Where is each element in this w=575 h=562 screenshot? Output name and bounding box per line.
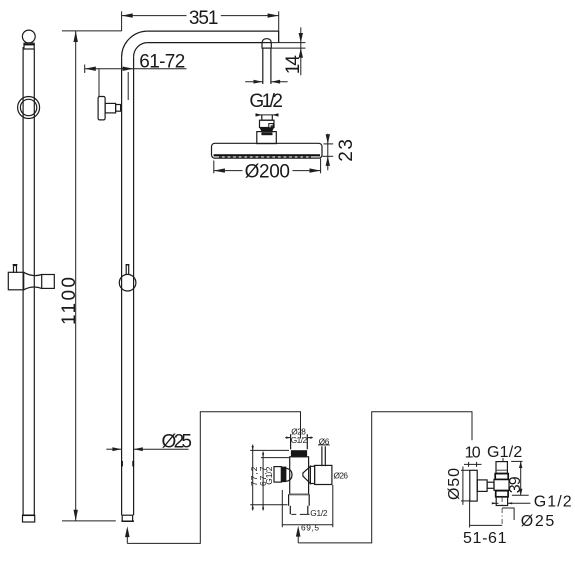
svg-text:1100: 1100 xyxy=(59,277,80,325)
diverter dim 69,5 ext right xyxy=(332,485,334,527)
curve inner artifact line xyxy=(127,72,129,100)
head connector body xyxy=(260,120,275,127)
wall elbow O50 dim line xyxy=(462,467,464,505)
wall elbow dim 10 xyxy=(464,463,482,465)
svg-text:G1/2: G1/2 xyxy=(487,444,522,461)
dim 23 line xyxy=(327,134,329,171)
dim 351 line right part xyxy=(221,15,279,17)
svg-text:Ø26: Ø26 xyxy=(334,471,349,481)
head connector base xyxy=(257,132,277,144)
wall elbow collar A xyxy=(495,474,508,480)
column curve inner xyxy=(134,43,148,57)
wall elbow right G1/2 leader xyxy=(508,502,531,504)
shower head face heavy line xyxy=(214,154,320,156)
wall elbow flange xyxy=(470,470,477,501)
wall elbow thread joint line xyxy=(496,469,507,471)
dim 14 line xyxy=(300,27,302,75)
G1/2 callout arm line left xyxy=(245,81,262,83)
wall elbow stem xyxy=(477,480,487,492)
diverter dim bottom ext xyxy=(250,504,287,506)
column curve outer xyxy=(122,31,148,57)
shower arm end edge xyxy=(278,31,280,42)
head connector dark band xyxy=(260,128,275,132)
wall elbow dim 51-61 line xyxy=(470,524,503,526)
svg-text:Ø50: Ø50 xyxy=(446,468,463,500)
svg-text:G1/2: G1/2 xyxy=(264,466,274,484)
diverter O28 arrows xyxy=(285,437,290,439)
dim 351 arrow right xyxy=(268,13,279,17)
dim O200 arrow left xyxy=(214,168,225,172)
dim 61-72 left tick xyxy=(84,65,86,74)
dim 14 ext top xyxy=(272,42,306,44)
dim 61-72 arrow right xyxy=(123,67,134,71)
slide bar ball top xyxy=(22,30,35,43)
dim 1100 line xyxy=(75,31,77,521)
slide bar mounting ring xyxy=(18,97,40,119)
svg-text:23: 23 xyxy=(336,139,357,162)
diverter dim 69,5 line xyxy=(282,524,333,526)
diverter: inlet tube walls xyxy=(290,434,292,449)
dim O200 line right xyxy=(293,170,321,172)
diverter right port cone xyxy=(303,466,311,483)
slide bar xyxy=(22,47,24,515)
dim 14 arrow up xyxy=(299,48,303,58)
wall elbow collar xyxy=(487,482,494,488)
dim 61-72 line xyxy=(85,68,187,70)
G1/2 callout arrow right xyxy=(271,80,280,84)
svg-text:G1/2: G1/2 xyxy=(534,493,572,510)
arm end collar xyxy=(262,43,271,49)
diverter dim 67,7 ext top xyxy=(261,457,289,459)
svg-text:351: 351 xyxy=(189,8,219,29)
diverter left port thread black xyxy=(281,467,286,483)
svg-text:51-61: 51-61 xyxy=(463,530,507,547)
wall elbow dim 51-61 ext xyxy=(469,499,471,527)
arm end dome xyxy=(262,39,271,43)
diverter lower outlet lower xyxy=(290,506,308,515)
hand shower holder waist xyxy=(24,272,42,275)
dim 351 arrow left xyxy=(122,13,133,17)
dim 23 ext bottom xyxy=(323,155,334,157)
diverter dim 69,5 ext left xyxy=(281,490,283,527)
diverter right port body xyxy=(315,465,332,484)
head connector socket xyxy=(262,115,273,120)
dim 61-72 arrow left xyxy=(85,67,96,71)
routing right: arrow under diverter xyxy=(296,526,301,537)
head connector base thread band xyxy=(261,132,272,135)
column holder knob circle xyxy=(119,274,136,291)
column joint ticks xyxy=(121,461,123,467)
diverter right port band xyxy=(310,466,314,483)
hand shower holder right block xyxy=(42,275,55,289)
arm drop pipe xyxy=(262,48,264,84)
wall elbow body xyxy=(494,479,509,490)
dim 23 arrow up xyxy=(326,156,330,166)
svg-text:G1/2: G1/2 xyxy=(249,91,283,112)
wall bracket stem xyxy=(105,103,116,113)
diverter body bottom joint xyxy=(289,494,309,496)
dim O200 arrow right xyxy=(310,168,321,172)
dim O200 ext right xyxy=(320,158,322,173)
dim 351 ext left xyxy=(121,11,123,31)
hand shower holder left block xyxy=(8,272,23,290)
dim 1100 arrow down xyxy=(74,510,78,521)
dim O200 line left xyxy=(214,170,243,172)
svg-text:Ø6: Ø6 xyxy=(319,436,330,446)
diverter dim 77,2 line xyxy=(252,445,254,511)
svg-text:61-72: 61-72 xyxy=(139,51,185,72)
svg-text:Ø25: Ø25 xyxy=(521,513,555,530)
diverter O6 pipe xyxy=(321,446,323,466)
svg-text:G1/2: G1/2 xyxy=(291,435,308,445)
svg-text:G1/2: G1/2 xyxy=(310,508,328,518)
wall elbow dim 39 xyxy=(511,460,522,462)
svg-text:Ø200: Ø200 xyxy=(245,162,290,183)
G1/2 callout line right xyxy=(271,81,288,83)
wall elbow top thread stub xyxy=(496,462,507,474)
dim 23 ext top xyxy=(324,143,334,145)
dim 23 arrow down xyxy=(326,134,330,144)
shower head outline xyxy=(212,143,323,158)
diverter lower outlet upper xyxy=(289,494,310,506)
column holder pin xyxy=(126,265,129,275)
wall elbow G1/2 top leader xyxy=(502,458,504,461)
wall elbow O25 leader xyxy=(502,508,514,520)
dim 1100 extension top xyxy=(62,30,122,32)
wall elbow centerline xyxy=(501,497,503,525)
svg-text:10: 10 xyxy=(465,444,481,461)
dim 14 arrow down xyxy=(299,33,303,43)
column bottom cap xyxy=(122,515,132,521)
diverter left port barrel xyxy=(274,467,281,483)
svg-text:69,5: 69,5 xyxy=(301,523,319,533)
slide bar collar under ball xyxy=(24,43,34,49)
svg-text:14: 14 xyxy=(283,55,304,75)
dim O25 column arrows xyxy=(106,448,121,450)
shower head nozzle dashes xyxy=(219,156,311,158)
head connector set screw xyxy=(269,124,273,128)
slide bar bottom cap xyxy=(23,515,35,522)
diverter left port dome xyxy=(286,468,292,481)
G1/2 callout arrow left xyxy=(254,80,263,84)
leader from dim 61-72 to wall bracket xyxy=(98,69,100,97)
column riser right edge xyxy=(133,57,135,515)
dim 351 ext right xyxy=(278,11,280,42)
routing right polyline xyxy=(298,412,472,543)
diverter inlet thread black xyxy=(291,450,307,457)
dim 1100 arrow up xyxy=(74,31,78,42)
dim O200 ext left xyxy=(213,161,215,174)
diverter body xyxy=(290,457,309,494)
dim 14 ext bottom xyxy=(272,47,306,49)
diverter O6 dim xyxy=(318,444,330,446)
routing left: arrow under column xyxy=(125,526,130,537)
diverter dim 67,7 line xyxy=(262,452,264,511)
shower arm bottom edge xyxy=(148,42,263,44)
wall bracket plate xyxy=(98,97,105,120)
column riser left edge xyxy=(121,57,123,515)
diverter outlet G1/2 leader dashes xyxy=(291,513,309,515)
head connector top dim line xyxy=(255,114,278,116)
svg-text:39: 39 xyxy=(507,476,524,493)
dim 351 line left part xyxy=(122,15,187,17)
wall elbow bottom collar xyxy=(496,491,508,497)
wall elbow bottom port xyxy=(496,497,507,506)
routing left polyline xyxy=(127,412,300,544)
wall bracket nut xyxy=(116,105,121,112)
svg-text:Ø25: Ø25 xyxy=(162,431,193,452)
hand shower holder pin xyxy=(14,266,17,274)
diverter dim 77,2 ext top xyxy=(250,449,289,451)
shower arm top edge xyxy=(148,30,279,32)
dim 1100 extension bottom xyxy=(62,520,116,522)
